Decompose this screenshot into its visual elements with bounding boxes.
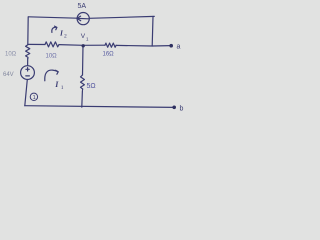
wire bottom horizontal — [25, 106, 174, 108]
wire top-right horizontal — [89, 16, 154, 18]
current source I 5A — [77, 13, 89, 25]
svg-text:5Ω: 5Ω — [87, 83, 96, 90]
svg-text:2: 2 — [64, 34, 67, 40]
svg-text:5A: 5A — [78, 3, 87, 10]
wire middle vertical upper — [82, 45, 85, 75]
svg-text:10Ω: 10Ω — [46, 54, 58, 60]
wire top-left horizontal — [29, 17, 78, 18]
wire below source to bottom corner — [25, 80, 28, 106]
wire middle right segment to node a — [116, 44, 171, 47]
wire left vertical lower — [27, 59, 29, 66]
svg-text:1: 1 — [61, 85, 64, 91]
resistor R4 5ohm vertical — [81, 75, 85, 90]
wire right vertical — [151, 17, 154, 47]
svg-text:10Ω: 10Ω — [5, 52, 17, 58]
svg-text:16Ω: 16Ω — [103, 52, 115, 58]
svg-text:a: a — [177, 44, 181, 51]
voltage source V 64V — [21, 66, 35, 80]
loop arrow I1 — [45, 70, 58, 81]
wire middle left segment — [28, 43, 45, 45]
wire middle to node V1 — [59, 44, 105, 47]
resistor R2 10ohm horizontal — [45, 42, 59, 47]
node marker circled 1 — [30, 93, 37, 100]
svg-text:1: 1 — [33, 95, 36, 101]
svg-text:b: b — [180, 106, 184, 113]
resistor R1 10ohm vertical — [26, 45, 30, 59]
paper background — [0, 0, 200, 121]
node dot V1 — [82, 44, 85, 47]
loop arrow I2 — [52, 27, 57, 32]
node dot b — [172, 106, 176, 110]
node dot a — [169, 44, 173, 48]
current source arrow — [78, 17, 89, 19]
wire middle vertical lower — [81, 91, 84, 107]
svg-text:64V: 64V — [3, 72, 14, 78]
wire left vertical upper — [27, 17, 29, 45]
resistor R3 16ohm — [105, 43, 116, 47]
